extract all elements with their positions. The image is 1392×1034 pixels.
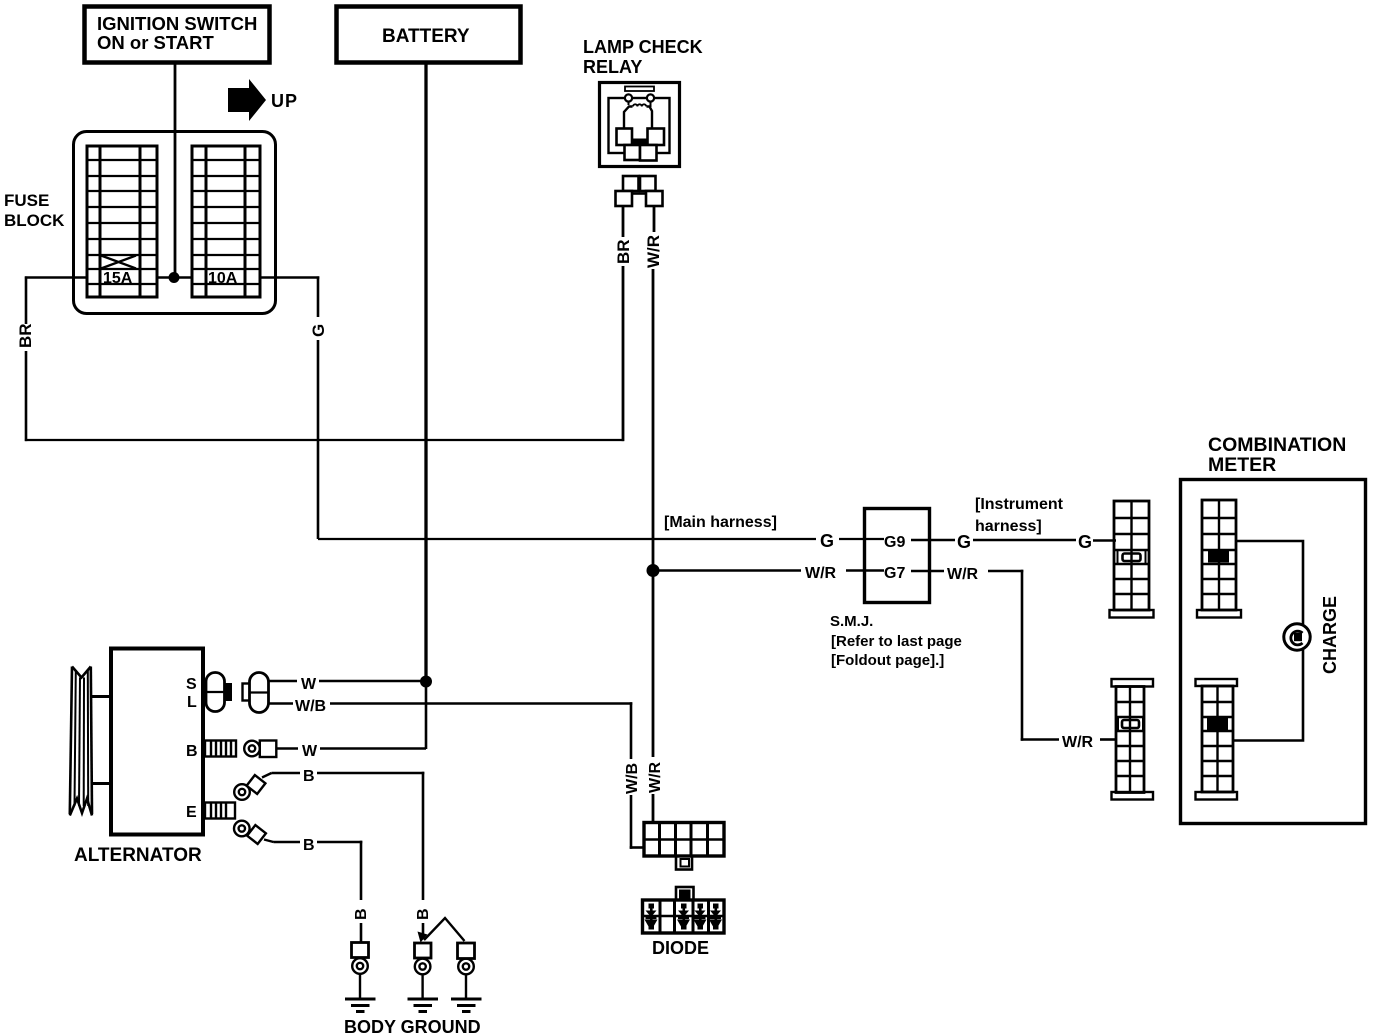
- wire W battery vertical: [424, 63, 427, 682]
- fuse grid left (15A column): [87, 146, 157, 297]
- wire G vertical from fuse: [317, 276, 320, 539]
- svg-text:B: B: [415, 908, 432, 920]
- fuse grid right (10A column): [192, 146, 260, 297]
- ground G2 (middle): [408, 943, 439, 1012]
- diode D4 symbol: [709, 904, 722, 930]
- diode pack D1-D4: [643, 887, 725, 933]
- connector C1 (instrument harness, to G): [1110, 501, 1154, 618]
- connector C3 (instrument harness, to W/R): [1112, 679, 1154, 800]
- svg-text:G: G: [309, 324, 328, 337]
- svg-text:COMBINATION: COMBINATION: [1208, 434, 1346, 456]
- svg-text:W: W: [301, 676, 317, 693]
- wire W alternator S to battery node: [269, 680, 427, 683]
- wire charge lamp to meter connector (bottom): [1233, 650, 1303, 741]
- connector C2 (meter side, to G): [1197, 500, 1241, 618]
- combination meter box: [1181, 434, 1366, 824]
- svg-text:W/R: W/R: [644, 235, 663, 268]
- svg-text:[Main harness]: [Main harness]: [664, 514, 777, 531]
- svg-text:UP: UP: [271, 91, 298, 111]
- LAMP CHECK RELAY RY1: [583, 37, 703, 167]
- svg-text:L: L: [187, 694, 197, 711]
- connector S/L harness plug: [243, 673, 269, 713]
- svg-text:W/B: W/B: [295, 698, 326, 715]
- wire fuse 10A to G drop: [260, 276, 319, 279]
- svg-text:ALTERNATOR: ALTERNATOR: [74, 845, 202, 866]
- svg-text:B: B: [186, 743, 198, 760]
- UP direction arrow: [228, 79, 298, 121]
- wire fuse row through junction: [157, 276, 192, 279]
- svg-text:S.M.J.: S.M.J.: [830, 613, 873, 630]
- svg-text:10A: 10A: [208, 270, 238, 287]
- svg-text:W: W: [302, 743, 318, 760]
- terminal E stud (hatched): [205, 803, 235, 819]
- svg-text:B: B: [353, 908, 370, 920]
- svg-text:[Instrument: [Instrument: [975, 496, 1064, 513]
- svg-text:DIODE: DIODE: [652, 938, 709, 958]
- svg-text:BODY GROUND: BODY GROUND: [344, 1017, 481, 1034]
- ground G1 (left): [345, 943, 376, 1012]
- label FUSE BLOCK: [4, 191, 65, 230]
- ignition switch box SW1: [85, 7, 270, 63]
- svg-text:W/B: W/B: [624, 763, 641, 794]
- wire BR relay drop: [622, 206, 625, 441]
- label S.M.J. note: [830, 613, 962, 669]
- wire branch lambda to grounds: [424, 918, 465, 941]
- svg-text:METER: METER: [1208, 454, 1276, 476]
- svg-text:B: B: [303, 837, 315, 854]
- wire G instrument harness: [911, 539, 1116, 542]
- svg-text:W/R: W/R: [947, 566, 979, 583]
- wire W/R relay drop: [653, 206, 654, 570]
- ground G3 (right): [451, 943, 482, 1012]
- svg-text:BR: BR: [614, 239, 633, 264]
- svg-text:RELAY: RELAY: [583, 57, 642, 77]
- wire ignition switch to fuse node: [174, 63, 177, 277]
- svg-text:W/R: W/R: [1062, 734, 1094, 751]
- diode D1 symbol: [645, 904, 658, 930]
- connector ring lug E2 (lower): [234, 821, 274, 844]
- svg-text:ON or START: ON or START: [97, 32, 215, 53]
- svg-text:CHARGE: CHARGE: [1320, 596, 1340, 674]
- svg-text:B: B: [303, 768, 315, 785]
- wire battery node stub down: [425, 681, 428, 749]
- arrow into ground G2: [418, 932, 428, 943]
- fuse F1 15A symbol: [101, 256, 136, 269]
- wire BR vertical left: [25, 276, 28, 441]
- wire W/R to SMJ: [653, 569, 884, 572]
- svg-text:BLOCK: BLOCK: [4, 211, 65, 230]
- terminal B stud (hatched): [205, 741, 236, 757]
- svg-text:harness]: harness]: [975, 518, 1042, 535]
- connector C4 (meter side, to W/R): [1196, 679, 1238, 800]
- junction node fuse feed: [169, 272, 180, 283]
- relay connector pins: [616, 176, 663, 206]
- wire W alternator B to battery line: [276, 747, 426, 750]
- diode D2 symbol: [677, 904, 690, 930]
- charge lamp L1: [1284, 624, 1310, 650]
- connector ring lug E1 (upper): [234, 773, 271, 800]
- wire G main harness horizontal: [318, 538, 884, 540]
- svg-text:G: G: [1078, 532, 1092, 552]
- connector ring terminal B: [244, 741, 276, 758]
- harness label (Instrument harness): [975, 496, 1064, 535]
- junction node W/R: [647, 564, 660, 577]
- wire W/B alternator L: [269, 702, 646, 849]
- wire meter to charge lamp (top): [1236, 541, 1303, 624]
- wire B (lower) to ground: [274, 841, 363, 942]
- wire W/R instrument harness: [911, 570, 1116, 741]
- svg-text:IGNITION SWITCH: IGNITION SWITCH: [97, 13, 257, 34]
- connector S.M.J. box: [865, 509, 930, 603]
- svg-text:FUSE: FUSE: [4, 191, 49, 210]
- alternator pulley: [70, 667, 111, 816]
- svg-text:15A: 15A: [103, 270, 133, 287]
- svg-text:G: G: [820, 531, 834, 551]
- svg-text:BR: BR: [16, 323, 35, 348]
- alternator ALT1 body: [111, 649, 203, 835]
- connector diode harness plug: [644, 823, 724, 870]
- wire W/R relay to diode: [652, 571, 655, 823]
- svg-text:S: S: [186, 676, 197, 693]
- wire B (upper) to ground: [272, 772, 425, 937]
- svg-text:[Foldout page].]: [Foldout page].]: [831, 652, 944, 669]
- svg-text:LAMP CHECK: LAMP CHECK: [583, 37, 703, 57]
- wire BR horizontal bus: [25, 439, 624, 441]
- svg-text:W/R: W/R: [805, 565, 837, 582]
- diode D3 symbol: [694, 904, 707, 930]
- junction node W (battery feed): [420, 676, 432, 688]
- svg-text:G7: G7: [884, 565, 905, 582]
- battery BAT1 box: [337, 7, 521, 63]
- svg-text:W/R: W/R: [647, 761, 664, 793]
- svg-text:E: E: [186, 804, 197, 821]
- svg-text:[Refer to last page: [Refer to last page: [831, 633, 962, 650]
- fuse block outline: [74, 132, 276, 314]
- terminal S/L plug (at body): [206, 673, 232, 712]
- svg-text:G9: G9: [884, 534, 905, 551]
- wire fuse 15A to BR drop: [25, 276, 88, 279]
- svg-text:BATTERY: BATTERY: [382, 26, 470, 47]
- svg-text:G: G: [957, 532, 971, 552]
